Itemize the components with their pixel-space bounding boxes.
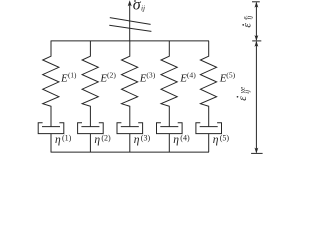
spring E2 [82,41,98,127]
spring E1 [43,41,59,127]
svg-text:(5): (5) [226,71,235,80]
svg-text:ε: ε [237,96,249,101]
stress arrowhead [128,0,132,6]
svg-text:(3): (3) [146,71,155,80]
arrowhead down at middle tick (upper side) [255,35,259,41]
bottom rigid bar [51,151,209,153]
dimension line viscous segment [255,42,257,153]
dimension tick middle [252,40,261,42]
dashpot eta5 cup [196,123,222,134]
dimension line elastic segment [255,3,257,41]
dashpot eta1 cup [38,123,64,134]
svg-text:ij: ij [246,16,254,20]
svg-text:η: η [213,134,219,146]
label E(3) [139,71,156,85]
dashpot eta4 piston [160,126,178,128]
stress arrow shaft [129,3,131,41]
dashpot eta2 piston [81,126,99,128]
label eta(3) [134,134,151,146]
label eta(1) [55,134,72,146]
label E(5) [219,71,236,85]
svg-text:(4): (4) [180,134,190,143]
spring E4 [161,41,177,127]
loading bar slash lower [109,25,151,31]
dashpot eta2 lower rod [89,134,91,153]
label eta(4) [173,134,190,146]
dashpot eta4 lower rod [168,134,170,153]
top rigid bar [51,40,209,42]
svg-text:(4): (4) [187,71,196,80]
label epsilon-dot ve ij (rotated) [237,86,252,101]
arrowhead up at middle tick (lower side) [255,41,259,47]
svg-text:(3): (3) [141,134,151,143]
dashpot eta3 cup [117,123,143,134]
dashpot eta4 cup [157,123,183,134]
svg-text:η: η [134,134,140,146]
dashpot eta3 lower rod [129,134,131,153]
dashpot eta5 lower rod [208,134,210,153]
svg-text:ij: ij [141,3,145,12]
svg-text:η: η [94,134,100,146]
spring E3 [122,41,138,127]
dimension tick top [252,1,260,3]
svg-text:η: η [55,134,61,146]
label epsilon-dot e ij (rotated) [241,16,253,28]
label eta(5) [213,134,230,146]
label E(2) [99,71,116,85]
dimension tick bottom [251,152,263,154]
label eta(2) [94,134,111,146]
label sigma_ij [133,0,145,13]
dashpot eta1 piston [42,126,60,128]
arrowhead up at top tick [255,2,259,8]
dashpot eta2 cup [78,123,104,134]
spring E5 [200,41,216,127]
svg-text:(2): (2) [107,71,116,80]
svg-text:E: E [60,72,68,84]
dashpot eta5 piston [200,126,218,128]
svg-text:(1): (1) [68,71,77,79]
svg-text:(2): (2) [101,134,111,143]
svg-text:(5): (5) [220,134,230,143]
loading bar slash upper [110,18,151,25]
dashpot eta1 lower rod [50,134,52,153]
dashpot eta3 piston [121,126,139,128]
svg-text:ij: ij [243,90,251,94]
svg-text:(1): (1) [62,134,72,143]
label E(1) [60,71,77,84]
arrowhead down at bottom tick [255,148,259,154]
svg-text:η: η [173,134,179,146]
label E(4) [179,71,196,85]
